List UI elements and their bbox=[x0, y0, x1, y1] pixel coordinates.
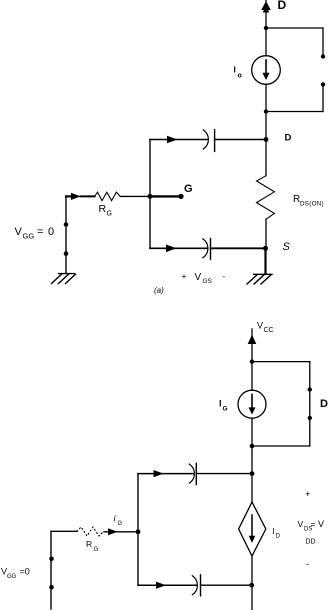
svg-text:i: i bbox=[114, 514, 117, 524]
svg-text:o: o bbox=[238, 73, 242, 80]
svg-text:V: V bbox=[298, 519, 304, 529]
svg-text:D: D bbox=[285, 133, 292, 144]
svg-text:V: V bbox=[15, 226, 23, 238]
svg-text:DD: DD bbox=[306, 539, 316, 546]
svg-text:R: R bbox=[86, 539, 92, 549]
svg-text:G: G bbox=[107, 211, 112, 218]
svg-text:DS(ON): DS(ON) bbox=[300, 201, 324, 208]
svg-text:V: V bbox=[195, 272, 202, 283]
svg-text:GG: GG bbox=[7, 574, 17, 580]
svg-text:=: = bbox=[37, 226, 43, 238]
svg-text:V: V bbox=[257, 321, 263, 331]
svg-text:G: G bbox=[223, 406, 228, 413]
svg-text:0: 0 bbox=[48, 226, 54, 238]
svg-text:-: - bbox=[223, 271, 226, 281]
svg-text:R: R bbox=[99, 203, 107, 215]
svg-text:I: I bbox=[234, 65, 236, 75]
svg-text:CC: CC bbox=[264, 327, 274, 334]
svg-text:D: D bbox=[278, 0, 287, 12]
svg-text:D: D bbox=[320, 398, 328, 410]
svg-text:GG: GG bbox=[23, 232, 35, 241]
svg-text:G: G bbox=[94, 546, 99, 553]
svg-text:-: - bbox=[306, 559, 309, 569]
svg-text:D: D bbox=[276, 534, 281, 540]
svg-text:I: I bbox=[273, 527, 275, 536]
svg-text:I: I bbox=[219, 399, 222, 409]
svg-text:(a): (a) bbox=[154, 286, 164, 295]
svg-text:GS: GS bbox=[203, 278, 213, 285]
svg-text:+: + bbox=[182, 271, 187, 281]
svg-text:G: G bbox=[118, 521, 123, 527]
svg-text:V: V bbox=[318, 519, 324, 529]
svg-text:=: = bbox=[311, 519, 316, 529]
svg-text:G: G bbox=[184, 183, 193, 195]
svg-text:+: + bbox=[305, 489, 311, 500]
svg-text:S: S bbox=[283, 241, 291, 253]
svg-text:=0: =0 bbox=[20, 567, 30, 577]
